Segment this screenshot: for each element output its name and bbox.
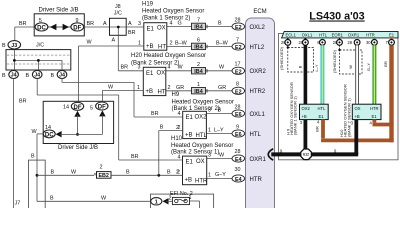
svg-text:28: 28 <box>235 18 241 24</box>
svg-text:2: 2 <box>100 165 103 171</box>
svg-text:(SHIELDED): (SHIELDED) <box>279 46 284 70</box>
svg-text:BR: BR <box>87 21 95 27</box>
svg-text:E1: E1 <box>147 27 155 33</box>
arrow up into DF5 <box>99 110 105 116</box>
svg-text:Driver Side J/B: Driver Side J/B <box>38 8 78 14</box>
svg-text:EB2: EB2 <box>98 173 109 179</box>
DF oval pin14 <box>71 102 83 110</box>
svg-text:A: A <box>128 21 132 27</box>
svg-text:H19: H19 <box>142 2 154 8</box>
svg-text:E2: E2 <box>235 89 242 95</box>
svg-text:HTR: HTR <box>250 177 263 183</box>
sensor box A H9 <box>300 104 329 119</box>
svg-text:3: 3 <box>138 21 141 27</box>
svg-text:GR: GR <box>176 85 184 91</box>
svg-text:OXR2: OXR2 <box>250 69 267 75</box>
sensor H10 vertical name <box>339 84 351 137</box>
ECM pin names <box>250 25 267 183</box>
arrow up into DF14 <box>74 111 80 117</box>
svg-text:DF: DF <box>74 105 82 111</box>
node J4 #3 <box>51 71 67 80</box>
svg-text:OXR1: OXR1 <box>250 157 267 163</box>
shield drain EOR1 dashed <box>332 45 362 74</box>
svg-text:17: 17 <box>235 61 241 67</box>
wire row4 HTR2 <box>166 90 232 92</box>
svg-text:E4: E4 <box>235 177 242 183</box>
Driver Side J/B (second) <box>43 101 113 151</box>
wire row6 HTL <box>206 133 232 135</box>
svg-text:OX: OX <box>196 159 205 165</box>
svg-text:G–Y: G–Y <box>215 172 226 178</box>
svg-text:Driver Side J/B: Driver Side J/B <box>58 145 98 151</box>
wire DF to J8 J/C (BR) <box>84 21 110 27</box>
wire W down to EFI fuse row <box>37 196 151 202</box>
svg-text:E2: E2 <box>235 69 242 75</box>
svg-text:5: 5 <box>90 106 93 112</box>
svg-text:2: 2 <box>176 125 179 131</box>
connector IB4 row1 <box>192 18 206 31</box>
svg-text:HTL: HTL <box>250 132 262 138</box>
svg-text:E4: E4 <box>235 157 242 163</box>
node E12 <box>301 149 312 160</box>
H10 sensor box <box>177 155 208 185</box>
svg-text:29: 29 <box>281 40 286 45</box>
svg-text:7: 7 <box>236 38 239 44</box>
svg-text:IB4: IB4 <box>194 89 202 95</box>
ECM oval E2 row4 <box>232 81 245 95</box>
DC oval pin14 <box>43 130 55 138</box>
svg-text:OX2: OX2 <box>302 106 311 111</box>
svg-text:J/C: J/C <box>36 43 44 49</box>
svg-text:E1: E1 <box>146 71 154 77</box>
svg-text:ECL1: ECL1 <box>286 32 297 37</box>
svg-text:28: 28 <box>348 40 353 45</box>
pin OXL1 <box>304 38 306 40</box>
svg-text:9: 9 <box>76 18 79 24</box>
H10 sensor header <box>171 136 233 156</box>
svg-text:A: A <box>103 21 107 27</box>
svg-text:1: 1 <box>155 200 158 206</box>
svg-text:28: 28 <box>235 149 241 155</box>
svg-text:9: 9 <box>236 125 239 131</box>
svg-text:+B: +B <box>185 178 193 184</box>
svg-text:+B: +B <box>146 44 154 50</box>
wire J/C to H19 E1 (A/BR) <box>126 21 144 36</box>
svg-text:E2: E2 <box>235 25 242 31</box>
wire J/C-A down to H20 E1 (BR) <box>112 35 144 71</box>
svg-text:OX: OX <box>157 26 166 32</box>
svg-text:OX: OX <box>355 106 361 111</box>
svg-text:HT: HT <box>158 45 166 51</box>
pin HTR <box>373 38 375 40</box>
DF oval pin9 <box>71 23 84 31</box>
sensor H9 vertical name <box>286 82 298 135</box>
wire row5 OXL1 <box>206 113 232 115</box>
svg-text:HTR2: HTR2 <box>250 89 266 95</box>
svg-text:BR: BR <box>128 30 136 36</box>
svg-text:EOR1: EOR1 <box>332 32 344 37</box>
ECM box <box>246 9 275 214</box>
svg-text:30: 30 <box>366 40 371 45</box>
svg-text:B: B <box>167 170 171 176</box>
wire J4#3 to H9 E1 (BR) <box>62 79 183 118</box>
svg-text:H20 Heated Oxygen Sensor: H20 Heated Oxygen Sensor <box>131 53 206 59</box>
node J4 #1 <box>2 71 18 80</box>
fuse EFI No.2 <box>169 191 193 205</box>
svg-text:E1: E1 <box>372 114 378 119</box>
ECM header strip <box>282 31 398 38</box>
svg-text:8: 8 <box>236 81 239 87</box>
svg-text:1: 1 <box>208 128 211 134</box>
svg-text:J4: J4 <box>34 73 40 79</box>
ECM oval E2 row3 <box>232 61 245 75</box>
svg-text:B: B <box>218 21 222 27</box>
svg-text:IB4: IB4 <box>194 25 202 31</box>
svg-text:IB4: IB4 <box>194 69 202 75</box>
pin E1 <box>391 38 393 40</box>
sensor box B H10 <box>352 104 381 119</box>
svg-text:BR: BR <box>383 61 388 67</box>
svg-text:DC: DC <box>45 132 54 138</box>
svg-text:BR: BR <box>19 99 27 105</box>
svg-text:G: G <box>178 21 182 27</box>
connector IB4 row4 <box>192 82 206 95</box>
svg-text:E6: E6 <box>235 132 242 138</box>
svg-text:28: 28 <box>299 40 304 45</box>
wire HTL L-Y <box>314 45 322 104</box>
svg-text:GR: GR <box>218 85 226 91</box>
wire OXL1 black <box>298 45 306 104</box>
svg-text:L–Y: L–Y <box>314 64 319 72</box>
svg-text:B: B <box>2 43 6 49</box>
wire W from DC14 down-left <box>31 129 43 201</box>
svg-text:1: 1 <box>208 173 211 179</box>
node J4 #2 <box>26 71 43 80</box>
svg-text:B: B <box>26 73 30 79</box>
svg-text:4: 4 <box>178 111 181 117</box>
wire EB2 to junction to H10 +B <box>111 170 183 177</box>
ECM oval E6 row6 <box>232 125 245 139</box>
svg-text:(BANK 1 SENSOR 1): (BANK 1 SENSOR 1) <box>293 96 298 135</box>
connector IB4 row3 <box>192 62 206 75</box>
black ground net to E12 <box>268 120 358 160</box>
svg-text:ECM: ECM <box>253 9 266 15</box>
wire J4#2 to H10 E1 (BR) <box>19 79 183 161</box>
DF oval pin5 <box>96 102 108 110</box>
svg-text:J/C: J/C <box>114 11 122 17</box>
svg-text:E1: E1 <box>319 114 325 119</box>
svg-text:3: 3 <box>138 65 141 71</box>
wire row1 OXL2 <box>167 26 232 28</box>
svg-text:7: 7 <box>197 18 200 24</box>
svg-text:DC: DC <box>37 26 46 32</box>
pin OXR1 <box>356 38 358 40</box>
svg-text:B: B <box>126 170 130 176</box>
connector EB2 <box>94 165 111 179</box>
J/B outline rect bottom-left <box>29 160 46 210</box>
svg-text:HT: HT <box>158 90 166 96</box>
svg-text:BR: BR <box>131 154 139 160</box>
svg-text:B–W: B–W <box>216 41 229 47</box>
svg-text:E1: E1 <box>186 160 194 166</box>
junction node on W wire <box>36 174 39 177</box>
J8 J/C junction connector <box>110 4 127 35</box>
svg-text:14: 14 <box>63 105 69 111</box>
wire fuse out down <box>190 201 200 208</box>
svg-text:LS430 a'03: LS430 a'03 <box>309 11 364 23</box>
svg-text:B–W: B–W <box>175 41 188 47</box>
svg-text:29: 29 <box>333 40 338 45</box>
svg-text:OXL2: OXL2 <box>250 25 266 31</box>
svg-text:B: B <box>51 170 55 176</box>
svg-text:4: 4 <box>170 21 173 27</box>
ECM oval E4 row8 <box>232 167 245 183</box>
svg-text:2: 2 <box>168 85 171 91</box>
svg-text:28: 28 <box>235 105 241 111</box>
svg-text:E12: E12 <box>303 153 309 157</box>
svg-text:B: B <box>2 73 6 79</box>
svg-text:G–Y: G–Y <box>366 63 371 71</box>
node J3 <box>2 41 21 49</box>
svg-text:OXR1: OXR1 <box>348 32 360 37</box>
BR wire from DC to J3 <box>15 21 35 41</box>
ECM oval E4 row7 <box>232 149 245 163</box>
frame <box>279 34 399 160</box>
svg-text:1: 1 <box>197 82 200 88</box>
wire row3 OXR2 <box>166 70 232 72</box>
H9 sensor box <box>178 111 208 139</box>
svg-text:5: 5 <box>39 18 42 24</box>
ECM oval E6 row5 <box>232 105 245 119</box>
pin HTL <box>321 38 323 40</box>
svg-text:Heated Oxygen Sensor: Heated Oxygen Sensor <box>142 9 204 15</box>
brown E1 net <box>315 120 394 141</box>
svg-text:Heated Oxygen Sensor: Heated Oxygen Sensor <box>171 143 233 149</box>
svg-text:+B: +B <box>355 114 360 119</box>
svg-text:W: W <box>348 65 353 69</box>
svg-text:+B: +B <box>185 133 193 139</box>
svg-text:+B: +B <box>302 114 307 119</box>
connector IB4 row2 <box>192 38 206 51</box>
svg-text:E6: E6 <box>235 112 242 118</box>
wire to EB2 and H10 +B (B) <box>37 169 94 175</box>
H19 sensor header <box>142 2 204 22</box>
svg-text:B: B <box>298 65 303 68</box>
svg-text:BR: BR <box>151 111 159 117</box>
svg-text:DF: DF <box>73 26 81 32</box>
wire 14DF up to H19 +B (W) <box>79 40 144 102</box>
svg-text:L–Y: L–Y <box>214 128 224 134</box>
arrow left into DC14 <box>56 131 62 137</box>
svg-text:DF: DF <box>98 105 106 111</box>
pin circles row <box>281 38 394 45</box>
wire 5DF up to H20 +B (W) <box>102 85 143 102</box>
H20 sensor header <box>131 53 206 67</box>
svg-text:Heated Oxygen Sensor: Heated Oxygen Sensor <box>172 99 234 105</box>
svg-text:14: 14 <box>45 125 51 131</box>
H19 sensor box <box>138 21 167 51</box>
IB4 break marks <box>206 25 208 93</box>
svg-text:(Bank 1 Sensor 2): (Bank 1 Sensor 2) <box>142 16 190 22</box>
Driver Side J/B (top) <box>34 8 84 36</box>
svg-text:A: A <box>112 38 116 44</box>
arrow right <box>63 24 69 31</box>
svg-text:HTR: HTR <box>366 32 375 37</box>
svg-text:HTL: HTL <box>196 133 208 139</box>
shield drain ECL1 dashed <box>279 45 314 72</box>
svg-text:B: B <box>50 196 54 202</box>
svg-text:HTL2: HTL2 <box>250 45 265 51</box>
svg-text:OXL1: OXL1 <box>302 32 313 37</box>
J/C junction block (lower-left) <box>6 43 71 71</box>
svg-text:H10: H10 <box>171 136 183 142</box>
wire labels rows left diagram <box>168 21 229 179</box>
svg-text:2: 2 <box>169 195 172 201</box>
ECM oval E2 row1 <box>232 18 245 32</box>
svg-text:BR: BR <box>121 65 129 71</box>
svg-text:6: 6 <box>197 38 200 44</box>
svg-text:B: B <box>31 154 35 160</box>
wire HTR G-Y <box>366 45 374 104</box>
arrow left <box>50 24 56 31</box>
pin EOR1 <box>339 38 341 40</box>
svg-text:E1: E1 <box>186 115 194 121</box>
wire row8 HTR <box>207 178 232 180</box>
wire E1 brown vertical <box>383 45 392 142</box>
svg-text:E1: E1 <box>389 32 395 37</box>
svg-text:B: B <box>160 125 164 131</box>
svg-text:E2: E2 <box>235 45 242 51</box>
svg-text:2: 2 <box>197 62 200 68</box>
ECM oval E2 row2 <box>232 38 245 52</box>
svg-text:B: B <box>51 73 55 79</box>
svg-text:HTR: HTR <box>195 179 208 185</box>
svg-text:J8: J8 <box>115 4 121 10</box>
EFI No.2 fuse block outline <box>151 194 214 210</box>
svg-text:(BANK 2 SENSOR 1): (BANK 2 SENSOR 1) <box>346 98 351 137</box>
svg-text:1: 1 <box>189 195 192 201</box>
svg-text:BR: BR <box>19 21 27 27</box>
node 1 oval <box>151 198 162 206</box>
svg-text:HTR: HTR <box>370 106 379 111</box>
svg-text:OX2: OX2 <box>195 114 208 120</box>
H20 sensor box <box>137 65 166 96</box>
svg-text:IB4: IB4 <box>194 45 202 51</box>
wire junction up to H9 +B (B) <box>159 125 183 176</box>
DC oval pin5 <box>35 23 48 31</box>
arrow into node1 <box>163 198 169 204</box>
svg-text:(SHIELDED): (SHIELDED) <box>332 49 337 73</box>
svg-text:HTL: HTL <box>319 32 328 37</box>
wire row7 OXR1 <box>207 158 232 160</box>
svg-text:J7: J7 <box>15 201 21 207</box>
pin ECL1 <box>287 38 289 40</box>
svg-text:H9: H9 <box>172 92 180 98</box>
svg-text:2: 2 <box>170 41 173 47</box>
svg-text:J3: J3 <box>11 43 17 49</box>
H9 sensor header <box>172 92 234 112</box>
svg-text:30: 30 <box>235 167 241 173</box>
svg-text:HTL: HTL <box>318 106 327 111</box>
svg-text:2: 2 <box>176 170 179 176</box>
svg-text:OXL1: OXL1 <box>250 112 266 118</box>
svg-text:OX: OX <box>157 70 166 76</box>
svg-text:J4: J4 <box>11 73 17 79</box>
wire J4#1 to J7 <box>14 79 21 209</box>
wire OXR1 white <box>348 45 357 104</box>
wire row2 HTL2 <box>167 46 232 48</box>
svg-text:+B: +B <box>146 89 154 95</box>
svg-text:BR: BR <box>315 126 320 132</box>
svg-text:J4: J4 <box>59 73 65 79</box>
